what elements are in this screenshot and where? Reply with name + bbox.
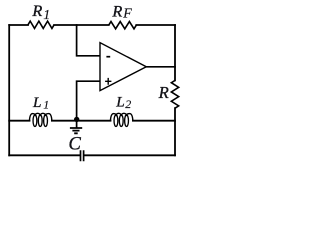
svg-text:L: L (32, 94, 41, 111)
svg-text:F: F (122, 7, 132, 22)
svg-text:R: R (158, 83, 169, 102)
svg-text:2: 2 (125, 97, 131, 111)
svg-text:1: 1 (43, 8, 50, 23)
svg-text:1: 1 (43, 98, 49, 112)
svg-text:R: R (31, 2, 42, 20)
svg-text:R: R (111, 3, 122, 21)
svg-text:L: L (115, 93, 124, 110)
svg-text:C: C (69, 135, 82, 155)
